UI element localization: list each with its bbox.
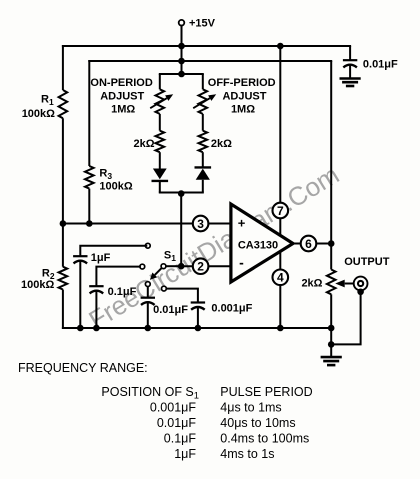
label op-amp minus input <box>239 255 244 271</box>
terminal OUTPUT jack <box>354 277 368 291</box>
wire 1uF bottom <box>79 260 81 328</box>
junction top rail / +15V <box>178 43 185 50</box>
label 0.1uF <box>108 286 137 298</box>
junction left rail / pin3 wire <box>60 220 67 227</box>
pin 7 <box>273 203 289 219</box>
wire output from apex <box>293 243 332 245</box>
contact S1 pole <box>161 264 166 269</box>
label POSITION OF S1 <box>101 385 199 402</box>
svg-text:0.001μF: 0.001μF <box>150 401 196 415</box>
wire pin7 stub <box>279 46 281 235</box>
potentiometer output wiper arrow <box>335 280 354 288</box>
label left 2k value <box>134 138 155 150</box>
label R2 <box>42 268 55 282</box>
label op-amp plus input <box>238 216 246 231</box>
junction diode bar center <box>178 190 185 197</box>
svg-text:POSITION OF S1: POSITION OF S1 <box>101 385 199 402</box>
label PULSE PERIOD <box>220 385 312 399</box>
wire pin3 from divider node <box>63 223 231 225</box>
wire top rail <box>62 45 351 47</box>
wire left rail upper <box>62 45 64 90</box>
label row2 cap <box>157 416 197 430</box>
svg-text:0.001μF: 0.001μF <box>211 303 252 315</box>
resistor R3 <box>85 166 94 189</box>
wire 0.001uF bottom <box>197 306 199 328</box>
wire 0.01uF bottom <box>147 301 149 328</box>
svg-text:1μF: 1μF <box>174 447 196 461</box>
svg-text:1MΩ: 1MΩ <box>231 104 255 116</box>
label R3 <box>99 168 112 182</box>
capacitor C 0.001uF <box>191 303 205 310</box>
svg-text:2: 2 <box>197 260 204 274</box>
wire 0.001uF top <box>166 289 198 303</box>
resistor R1 <box>59 90 68 118</box>
label row4 cap <box>174 447 196 461</box>
diode D2 (up) <box>195 167 212 179</box>
svg-text:ADJUST: ADJUST <box>222 91 266 103</box>
label FREQUENCY RANGE <box>18 361 148 375</box>
label ON-PERIOD <box>90 77 152 89</box>
wire left branch mid <box>159 114 161 131</box>
pin 2 <box>193 258 209 274</box>
contact S1 position 0.01uF <box>145 282 150 287</box>
svg-text:100kΩ: 100kΩ <box>21 279 54 291</box>
resistor left 2k <box>156 131 165 153</box>
label CA3130 <box>238 239 278 251</box>
wire +15V stem <box>181 26 183 75</box>
wire 1uF top <box>80 246 147 256</box>
junction R3 / pin3 wire <box>86 220 93 227</box>
label R1 <box>41 94 54 108</box>
junction S1 pole <box>178 263 185 270</box>
svg-text:2kΩ: 2kΩ <box>134 138 155 150</box>
junction 0.001uF / bottom rail <box>195 325 202 332</box>
label 0.01uF <box>153 304 188 316</box>
capacitor C 1uF <box>73 256 87 263</box>
junction 1uF / bottom rail <box>77 325 84 332</box>
wire right vertical lower <box>330 294 332 357</box>
wire second rail <box>88 60 332 62</box>
wire right branch mid <box>202 114 204 131</box>
label row1 period <box>220 401 281 415</box>
potentiometer on-period 1M zigzag <box>156 89 165 114</box>
svg-text:6: 6 <box>305 237 312 251</box>
label +15V <box>189 18 216 30</box>
svg-text:OUTPUT: OUTPUT <box>344 256 390 268</box>
svg-text:+15V: +15V <box>189 18 216 30</box>
label row2 period <box>220 416 295 430</box>
junction branch bar / +15V <box>178 71 185 78</box>
contact S1 position 1uF <box>145 243 150 248</box>
label ON ADJUST <box>100 91 144 103</box>
svg-text:0.01μF: 0.01μF <box>153 304 188 316</box>
wire left diode to bar <box>159 181 161 193</box>
label OFF 1M value <box>231 104 255 116</box>
switch S1 arm <box>150 268 162 280</box>
svg-text:1MΩ: 1MΩ <box>111 104 135 116</box>
svg-text:ON-PERIOD: ON-PERIOD <box>90 77 152 89</box>
pin 6 <box>301 236 317 252</box>
contact S1 position 0.1uF <box>140 264 145 269</box>
label OFF-PERIOD <box>208 77 276 89</box>
junction pin6 / right vertical <box>328 240 335 247</box>
wire output return <box>331 292 360 345</box>
wire pot branch top bar <box>159 73 204 75</box>
svg-text:ADJUST: ADJUST <box>100 91 144 103</box>
label S1 <box>164 250 176 264</box>
junction pin4 / bottom rail <box>277 325 284 332</box>
node +15V supply terminal <box>179 20 185 26</box>
wire right diode to bar <box>202 180 204 193</box>
ground (bottom right) <box>321 357 342 365</box>
potentiometer output 2k zigzag <box>327 270 336 295</box>
svg-text:100kΩ: 100kΩ <box>99 181 132 193</box>
potentiometer on-period arrow <box>150 94 173 108</box>
pin 3 <box>193 216 209 232</box>
ground (top right) <box>340 79 361 87</box>
junction 0.01uF / bottom rail <box>145 325 152 332</box>
svg-text:0.4ms to 100ms: 0.4ms to 100ms <box>220 432 309 446</box>
svg-text:R3: R3 <box>99 168 112 182</box>
svg-text:7: 7 <box>277 204 284 218</box>
label row3 cap <box>164 432 197 446</box>
svg-text:+: + <box>238 216 246 231</box>
wire R3 top lead <box>88 60 90 166</box>
wire right 2k to diode <box>202 152 204 167</box>
wire 0.01uF top <box>147 286 149 297</box>
wire 0.1uF top <box>96 267 140 286</box>
wire pin2 from S1 <box>181 265 231 267</box>
wire right vertical upper <box>330 61 332 270</box>
wire R3 bottom lead <box>88 189 90 224</box>
label row1 cap <box>150 401 196 415</box>
junction second rail / +15V <box>178 58 185 65</box>
label row3 period <box>220 432 309 446</box>
capacitor bypass 0.01uF <box>343 60 357 67</box>
wire S1 pole lead <box>166 265 182 267</box>
svg-text:2kΩ: 2kΩ <box>301 278 322 290</box>
wire left 2k to diode <box>159 152 161 169</box>
junction top rail / pin7 branch <box>277 43 284 50</box>
label right 2k value <box>211 138 232 150</box>
svg-text:3: 3 <box>197 217 204 231</box>
label 0.001uF <box>211 303 252 315</box>
watermark <box>83 159 344 335</box>
capacitor C 0.1uF <box>89 286 103 293</box>
diode D1 (down) <box>152 169 169 181</box>
resistor R2 <box>59 267 68 290</box>
wire bypass cap to ground <box>349 64 351 79</box>
wire left rail lower <box>62 290 64 330</box>
wire 0.1uF bottom <box>95 290 97 328</box>
junction pot bottom / bottom rail <box>328 325 335 332</box>
svg-text:100kΩ: 100kΩ <box>22 108 55 120</box>
svg-text:0.1μF: 0.1μF <box>108 286 137 298</box>
label 1uF <box>91 252 111 264</box>
svg-text:0.01μF: 0.01μF <box>363 59 398 71</box>
wire pin4 stub <box>279 252 281 329</box>
capacitor C 0.01uF <box>141 298 155 305</box>
svg-text:CA3130: CA3130 <box>238 239 278 251</box>
svg-text:OFF-PERIOD: OFF-PERIOD <box>208 77 276 89</box>
svg-text:0.1μF: 0.1μF <box>164 432 197 446</box>
svg-text:2kΩ: 2kΩ <box>211 138 232 150</box>
potentiometer off-period arrow <box>193 94 216 108</box>
wire diode bottom bar <box>159 192 204 194</box>
svg-text:1μF: 1μF <box>91 252 111 264</box>
contact S1 position 0.001uF <box>162 286 167 291</box>
svg-text:S1: S1 <box>164 250 176 264</box>
label output 2k value <box>301 278 322 290</box>
label R1 value <box>22 108 55 120</box>
svg-text:-: - <box>239 255 244 271</box>
label ON 1M value <box>111 104 135 116</box>
wire right branch top <box>202 74 204 89</box>
label row4 period <box>220 447 274 461</box>
svg-text:PULSE PERIOD: PULSE PERIOD <box>220 385 312 399</box>
svg-text:40μs to 10ms: 40μs to 10ms <box>220 416 295 430</box>
wire left branch top <box>159 74 161 89</box>
svg-text:0.01μF: 0.01μF <box>157 416 197 430</box>
junction 0.1uF / bottom rail <box>93 325 100 332</box>
resistor right 2k <box>199 131 208 153</box>
label OUTPUT <box>344 256 390 268</box>
potentiometer off-period 1M zigzag <box>199 89 208 114</box>
wire bypass cap lead <box>349 46 351 60</box>
svg-text:FREQUENCY RANGE:: FREQUENCY RANGE: <box>18 361 148 375</box>
junction ground stem / output return <box>328 341 335 348</box>
wire bottom rail <box>62 327 331 329</box>
svg-text:4ms to 1s: 4ms to 1s <box>220 447 274 461</box>
svg-text:R1: R1 <box>41 94 54 108</box>
svg-text:4: 4 <box>277 271 284 285</box>
op-amp U1 CA3130 <box>231 204 293 282</box>
pin 4 <box>273 270 289 286</box>
wire left rail middle <box>62 118 64 266</box>
label R2 value <box>21 279 54 291</box>
label bypass 0.01uF <box>363 59 398 71</box>
label OFF ADJUST <box>222 91 266 103</box>
svg-text:4μs to 1ms: 4μs to 1ms <box>220 401 281 415</box>
label R3 value <box>99 181 132 193</box>
wire diode bar to S1 pole <box>180 193 182 267</box>
junction output jack lead <box>357 289 364 296</box>
